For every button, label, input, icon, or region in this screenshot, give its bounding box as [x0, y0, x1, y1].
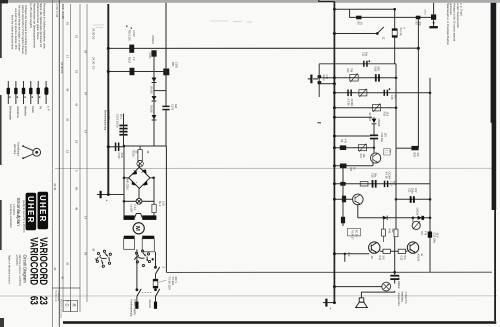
label Fernbedienung	[130, 300, 136, 317]
trimmer R18	[372, 104, 380, 112]
svg-text:10 k: 10 k	[386, 112, 389, 117]
svg-text:47k: 47k	[343, 139, 346, 144]
node row2	[333, 91, 336, 94]
label T1	[384, 172, 390, 180]
node diode row	[412, 217, 415, 220]
svg-text:without signal with a VTVM aga: without signal with a VTVM against chass…	[21, 5, 25, 55]
svg-text:R22: R22	[413, 153, 416, 158]
node tap	[333, 252, 336, 255]
wire diode string vertical	[153, 57, 155, 146]
node emitter row	[333, 164, 336, 167]
svg-text:63: 63	[27, 296, 40, 305]
Stromlaufplan label	[9, 198, 25, 234]
input jack Bu1	[308, 75, 318, 84]
svg-text:C120: C120	[148, 53, 151, 60]
label R22	[413, 153, 419, 158]
svg-text:43: 43	[75, 103, 79, 107]
svg-text:7A 34.17: 7A 34.17	[351, 230, 354, 240]
label R41	[349, 167, 355, 172]
svg-text:a 2332000: a 2332000	[12, 204, 14, 216]
svg-text:44.1: 44.1	[61, 4, 65, 10]
diode D102	[152, 96, 157, 101]
svg-text:50u: 50u	[374, 173, 377, 178]
svg-text:5 W: 5 W	[381, 256, 384, 261]
capacitor C14	[347, 90, 352, 97]
switch S1 upper	[155, 266, 160, 274]
svg-text:03: 03	[84, 252, 88, 256]
svg-text:from the values indicated here: from the values indicated here.	[11, 15, 15, 50]
svg-text:La 18V: La 18V	[130, 205, 133, 213]
winding box right	[142, 239, 154, 252]
svg-text:A 0.16: A 0.16	[384, 172, 387, 180]
notes block top right	[446, 3, 464, 45]
resistor R45 outline	[360, 182, 368, 186]
svg-text:81: 81	[66, 22, 70, 26]
label D16	[368, 113, 380, 127]
potentiometer R47	[412, 218, 420, 230]
enclosure bottom edge	[166, 271, 492, 273]
svg-text:Radio: Radio	[31, 106, 35, 113]
node row3	[333, 106, 336, 109]
svg-text:24.30 10: 24.30 10	[92, 28, 96, 40]
battery terminal	[97, 191, 109, 198]
regulator left rail	[123, 146, 125, 178]
node record rail	[417, 47, 420, 50]
svg-text:5 W: 5 W	[403, 256, 406, 261]
svg-text:4 Ohm 6 W: 4 Ohm 6 W	[404, 292, 407, 305]
label C13	[373, 67, 379, 72]
capacitor C13 electrolytic	[375, 74, 380, 81]
svg-text:Netzteil: Netzteil	[148, 300, 151, 309]
svg-text:4700: 4700	[120, 153, 123, 159]
svg-text:12: 12	[381, 37, 384, 40]
mains switch pole right	[155, 289, 160, 296]
wire R22 left	[396, 147, 411, 149]
control lamp label	[13, 142, 19, 157]
legend labels	[9, 106, 51, 121]
resistor R103	[138, 146, 142, 161]
svg-text:70: 70	[388, 150, 390, 153]
capacitor C18 electrolytic	[372, 180, 377, 188]
connector boxes C and B	[52, 288, 80, 312]
label C103	[171, 104, 178, 111]
node top feed	[333, 8, 336, 11]
svg-text:C103: C103	[171, 104, 174, 111]
bridge top lead	[138, 164, 140, 168]
wire emitter row	[380, 250, 408, 252]
label bridge B40 C800	[125, 179, 138, 191]
svg-text:R105: R105	[131, 151, 134, 158]
UHER logo 2	[26, 193, 37, 230]
wire regulator to bus return	[108, 194, 124, 196]
svg-text:K50/08: K50/08	[377, 119, 380, 127]
svg-text:Nachtraege: Nachtraege	[55, 291, 58, 303]
svg-text:Printed in Germany: Printed in Germany	[59, 299, 62, 319]
label R48	[388, 229, 394, 234]
node eq rail	[333, 76, 336, 79]
node mixer row	[333, 135, 336, 138]
label C101	[115, 114, 122, 128]
wire feedback row	[396, 198, 430, 200]
wire drop to heater rail	[350, 9, 434, 17]
svg-text:OC304: OC304	[350, 99, 353, 107]
svg-text:0.22: 0.22	[378, 256, 381, 261]
svg-text:250u: 250u	[411, 188, 414, 194]
svg-text:C11: C11	[361, 52, 364, 57]
svg-text:All voltages shown are subject: All voltages shown are subject to tolera…	[17, 5, 21, 52]
bottom frame border	[63, 321, 496, 324]
mains switch pole left	[136, 289, 141, 296]
svg-text:24V: 24V	[347, 252, 350, 257]
bridge right lead to diode column	[150, 177, 154, 179]
svg-text:43: 43	[53, 267, 57, 271]
node feedback left	[395, 198, 398, 201]
node row4	[333, 116, 336, 119]
svg-text:10: 10	[92, 66, 96, 70]
svg-text:14: 14	[84, 216, 88, 220]
svg-text:18: 18	[75, 140, 79, 144]
capacitor C16 electrolytic	[370, 135, 378, 140]
svg-text:50 Hz: 50 Hz	[423, 10, 425, 16]
svg-text:Power Supply: Power Supply	[133, 300, 136, 316]
svg-text:R48: R48	[388, 229, 391, 234]
svg-text:gemessen: gemessen	[449, 3, 452, 15]
svg-text:Betriebsspannung: Betriebsspannung	[104, 110, 107, 131]
svg-text:OA150: OA150	[149, 105, 152, 113]
enclosure left edge	[165, 146, 167, 272]
svg-text:C21: C21	[407, 188, 410, 193]
node regulator top left	[123, 145, 126, 148]
svg-text:UHER: UHER	[26, 196, 35, 224]
wire speaker feed	[361, 291, 394, 298]
dial lamp La101	[123, 178, 154, 216]
wire rail top horizontal	[108, 47, 418, 49]
node row1 end	[395, 77, 398, 80]
svg-text:R101 220: R101 220	[127, 30, 130, 41]
label R104	[158, 201, 164, 207]
label R1	[356, 22, 362, 26]
svg-text:B40 C800: B40 C800	[125, 179, 128, 191]
svg-text:Messungen im Stellung Aufnahme: Messungen im Stellung Aufnahme, ohne	[43, 3, 47, 49]
svg-text:R18: R18	[382, 112, 385, 117]
svg-text:a. P: a. P	[46, 106, 50, 111]
wire C22 vertical	[394, 237, 396, 284]
capacitor C21 electrolytic	[410, 196, 415, 203]
motor terminal notch	[135, 213, 143, 217]
node head rail	[429, 92, 432, 95]
label diode string	[149, 86, 152, 113]
diode DM301	[151, 50, 156, 56]
capacitor C15	[384, 88, 391, 96]
switch S2	[376, 27, 383, 34]
wire preamp row2	[334, 92, 430, 94]
svg-text:AD: AD	[370, 256, 373, 260]
capacitor C102	[115, 143, 120, 152]
svg-text:C15: C15	[390, 95, 393, 100]
transistor T1	[371, 153, 381, 163]
bridge diode arms	[132, 170, 148, 186]
svg-text:zu 15% sind moeglich.: zu 15% sind moeglich.	[29, 3, 33, 29]
table numbers	[53, 4, 95, 303]
svg-text:R9: R9	[340, 139, 343, 143]
svg-text:97: 97	[84, 92, 88, 96]
svg-text:36: 36	[66, 118, 70, 122]
small id text between dividers	[55, 4, 58, 18]
table line 4	[86, 4, 88, 302]
label R11	[340, 139, 346, 144]
label near C2	[423, 10, 425, 16]
svg-text:UHER 44.18: UHER 44.18	[55, 4, 58, 18]
node bridge right	[152, 177, 155, 180]
svg-text:Valid from serial no. a 256330: Valid from serial no. a 2563301	[18, 255, 21, 287]
wire tap mid	[334, 254, 369, 262]
svg-text:OA150: OA150	[149, 86, 152, 94]
svg-text:36: 36	[146, 151, 149, 154]
wire diode row	[358, 217, 430, 219]
wire T1 collector	[373, 124, 375, 135]
label C102	[117, 153, 123, 160]
svg-text:Wiedergabe: Wiedergabe	[9, 106, 13, 121]
wire top corner	[319, 0, 335, 2]
head rail right	[429, 78, 431, 272]
scan left edge marks	[0, 3, 2, 250]
resistor R49 outline	[394, 220, 398, 237]
node feedback right	[429, 198, 432, 201]
node bias row	[333, 146, 336, 149]
svg-text:ces and may in practice deviat: ces and may in practice deviate 15%	[14, 8, 18, 50]
svg-text:OA150: OA150	[415, 208, 418, 216]
table line 1	[62, 4, 64, 312]
label C11	[361, 52, 370, 62]
speed selector cluster left	[95, 250, 112, 267]
svg-text:1 k: 1 k	[132, 57, 135, 61]
bottom-left corner mark	[0, 318, 4, 327]
node frame row	[333, 82, 336, 85]
capacitor block C2	[431, 14, 436, 19]
svg-text:pilot lamp: pilot lamp	[13, 144, 16, 155]
svg-text:36: 36	[66, 262, 70, 266]
svg-text:Roehrenvoltmeter gegen Masse.: Roehrenvoltmeter gegen Masse.	[36, 3, 40, 40]
node T1 collector	[373, 147, 375, 149]
wire top feed	[334, 8, 394, 10]
svg-text:Ph: Ph	[38, 106, 42, 110]
svg-text:C16 10u: C16 10u	[380, 133, 383, 143]
resistor R46	[334, 196, 352, 203]
resistor R3	[416, 16, 421, 20]
capacitor C11	[363, 61, 368, 67]
svg-text:OC304: OC304	[388, 172, 391, 180]
svg-text:15: 15	[66, 150, 70, 154]
svg-text:Mikrofon: Mikrofon	[24, 106, 28, 117]
svg-text:gueltig ab Geraet Nr. a 256330: gueltig ab Geraet Nr. a 2563301	[22, 200, 25, 233]
wire motor left down	[136, 249, 138, 289]
node driver base	[333, 198, 336, 201]
node bus rail2	[107, 70, 110, 73]
T1 bias box label	[384, 149, 390, 155]
svg-text:2k2: 2k2	[391, 229, 394, 234]
regulator top wire	[124, 145, 166, 147]
svg-text:R41: R41	[349, 167, 352, 172]
svg-text:Spannungen a. d. 10 poligen Bu: Spannungen a. d. 10 poligen Buchse	[446, 3, 450, 45]
supply branch vertical line	[165, 3, 167, 106]
faint bleed-through smudge	[93, 21, 252, 28]
svg-text:Lautsprecher: Lautsprecher	[397, 292, 400, 306]
node eq feed	[395, 107, 398, 110]
svg-text:Signal. Alle Spannungen gemess: Signal. Alle Spannungen gemessen mit	[39, 3, 43, 48]
svg-text:S: S	[161, 267, 165, 269]
svg-text:C250: C250	[175, 62, 178, 69]
bridge left lead	[124, 177, 129, 179]
svg-text:C18: C18	[370, 173, 373, 178]
wire motor right down	[155, 252, 157, 267]
node dot heater	[433, 22, 435, 24]
svg-text:C23 100u: C23 100u	[432, 233, 435, 244]
svg-text:12V: 12V	[414, 188, 417, 193]
capacitor C19	[384, 181, 389, 187]
jack contact pads	[318, 75, 322, 84]
node bus bottom	[107, 193, 110, 196]
label Bu12	[322, 75, 327, 82]
svg-text:0.24: 0.24	[325, 75, 327, 80]
wire cap stack vertical	[123, 114, 125, 147]
svg-text:T 0.5A 110V: T 0.5A 110V	[168, 277, 171, 291]
wire frame to bus	[319, 83, 334, 85]
bridge rectifier Gl102	[129, 167, 150, 188]
ground below C2	[429, 20, 437, 27]
legend switch line 1	[8, 81, 46, 104]
svg-text:T 0.63A: T 0.63A	[171, 277, 174, 286]
svg-text:Impedanz: Impedanz	[401, 292, 404, 303]
svg-text:R47: R47	[420, 231, 423, 236]
svg-text:R3: R3	[414, 22, 417, 26]
node bias	[333, 32, 336, 35]
right page black bar	[491, 3, 497, 321]
svg-text:0.68: 0.68	[373, 67, 376, 72]
node diode row right	[429, 217, 432, 220]
svg-text:0.22: 0.22	[400, 256, 403, 261]
svg-text:A 2.05: A 2.05	[347, 99, 350, 107]
label speaker impedance	[397, 276, 407, 306]
svg-text:4u5: 4u5	[174, 104, 177, 109]
trimmer R13	[358, 144, 366, 152]
diode D103	[152, 115, 157, 120]
wire output row	[334, 286, 382, 288]
svg-text:a 2332000: a 2332000	[15, 255, 17, 267]
label C15	[390, 95, 396, 100]
motor M	[133, 223, 144, 234]
svg-text:tr: tr	[402, 28, 405, 30]
svg-text:C101 2000u: C101 2000u	[115, 114, 118, 128]
svg-text:44.30: 44.30	[53, 183, 57, 191]
title column divider line B	[58, 0, 60, 327]
wire mixer row	[334, 135, 370, 137]
label R103	[131, 151, 149, 158]
wire preamp row1	[334, 77, 396, 79]
svg-text:44.30: 44.30	[61, 12, 65, 20]
svg-text:B30: B30	[171, 62, 174, 67]
svg-text:UHER: UHER	[38, 195, 47, 223]
label lamp	[130, 205, 136, 213]
svg-text:a. d. 10 pol.: a. d. 10 pol.	[459, 3, 463, 17]
node at bus/rail	[107, 47, 110, 50]
svg-text:61: 61	[75, 35, 79, 39]
smoothing cap C101	[119, 125, 127, 136]
capacitor C23 on rail	[428, 232, 432, 238]
rectifier Gl101	[163, 69, 169, 76]
svg-text:10n: 10n	[365, 52, 368, 57]
svg-text:28: 28	[84, 50, 88, 54]
svg-text:VARIOCORD: VARIOCORD	[27, 237, 40, 285]
svg-text:48: 48	[75, 207, 79, 211]
mains pin left	[135, 296, 138, 309]
svg-text:4n7: 4n7	[393, 181, 396, 186]
diode D16	[372, 117, 377, 124]
node X433 top	[433, 3, 435, 15]
trimmer R14	[359, 89, 367, 97]
svg-text:socket measured with: socket measured with	[456, 3, 460, 28]
node bus regulator	[107, 145, 110, 148]
label C23	[432, 233, 438, 244]
scan top edge band	[0, 0, 500, 3]
svg-text:470: 470	[423, 231, 426, 236]
label R47	[420, 231, 426, 236]
wire jack to bus	[321, 77, 334, 79]
switch coupling dashed link	[142, 291, 153, 293]
label D42	[415, 208, 418, 216]
label R13	[359, 154, 365, 159]
svg-text:Stromlaufplan: Stromlaufplan	[16, 198, 21, 227]
transistor T3 output	[369, 242, 380, 253]
wire eq top	[319, 63, 396, 65]
trimmer R12	[350, 74, 358, 82]
labels output stage	[370, 254, 423, 262]
svg-text:Aenderung vorbehalten: Aenderung vorbehalten	[9, 204, 12, 229]
resistor R41	[340, 164, 347, 184]
svg-text:Si 0.1A: Si 0.1A	[399, 28, 402, 36]
wire below C103	[165, 110, 167, 146]
legend switch bodies	[7, 87, 49, 98]
wire T2 emitter down	[357, 205, 359, 218]
svg-text:25 V: 25 V	[119, 114, 122, 119]
svg-text:C102: C102	[117, 153, 120, 160]
svg-text:38: 38	[66, 88, 70, 92]
svg-text:Fernbedienung: Fernbedienung	[130, 300, 133, 317]
svg-text:R12: R12	[346, 68, 349, 73]
svg-text:+: +	[105, 200, 109, 202]
svg-text:80: 80	[75, 187, 79, 191]
svg-text:R: R	[72, 304, 77, 307]
motor terminal bar right	[142, 215, 156, 220]
resistor R104	[152, 178, 156, 216]
svg-text:5: 5	[75, 170, 79, 172]
svg-text:15 V: 15 V	[436, 233, 439, 238]
svg-text:12V: 12V	[383, 133, 386, 138]
svg-text:+: +	[135, 182, 138, 184]
label R18	[382, 112, 388, 117]
transistor T4 output	[407, 242, 418, 253]
label C14	[347, 99, 353, 107]
svg-text:C: C	[64, 304, 69, 307]
label Si2	[399, 28, 405, 36]
Circuit Diagram label	[8, 255, 28, 287]
label fuse ratings	[158, 277, 177, 291]
resistor R22	[411, 146, 418, 150]
fuse Si2	[392, 8, 397, 64]
wire driver row	[334, 183, 430, 185]
label C16	[380, 133, 386, 143]
svg-text:Voltages are measured in recor: Voltages are measured in recording posit…	[24, 5, 28, 55]
label R101	[126, 26, 135, 42]
